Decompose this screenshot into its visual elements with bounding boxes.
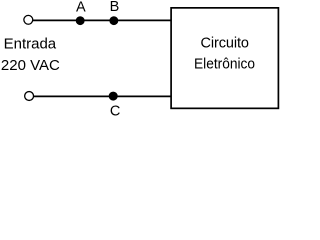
svg-text:220 VAC: 220 VAC [1,57,60,74]
svg-text:Eletrônico: Eletrônico [194,57,255,73]
svg-text:Circuito: Circuito [200,36,249,52]
svg-text:A: A [76,0,86,15]
svg-text:C: C [110,104,120,120]
svg-text:Entrada: Entrada [4,35,57,52]
svg-text:B: B [110,0,120,15]
